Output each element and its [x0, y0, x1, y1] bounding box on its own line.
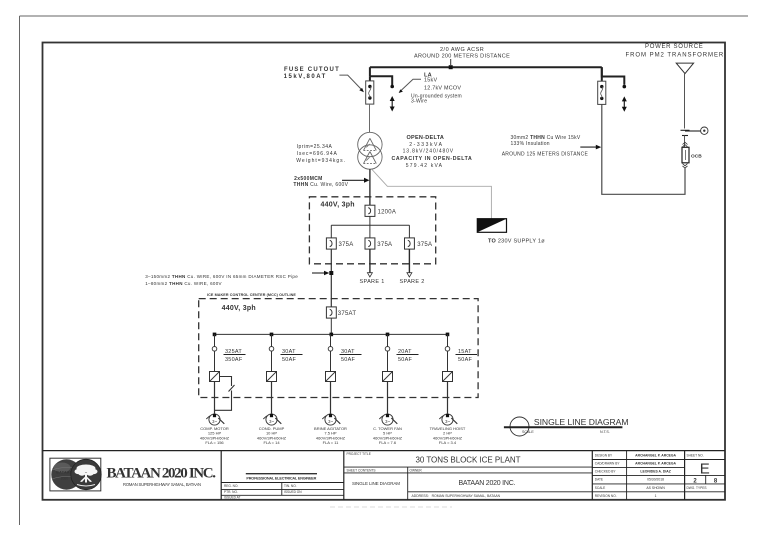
company logo [50, 458, 101, 491]
wire: tap to 230V supply [372, 170, 491, 219]
svg-text:LEONIDES A. DIAZ: LEONIDES A. DIAZ [640, 470, 670, 474]
svg-text:ARCHANGEL P. ARCEGA: ARCHANGEL P. ARCEGA [635, 454, 676, 458]
svg-text:SCALE: SCALE [595, 486, 605, 490]
svg-text:FLA = 11: FLA = 11 [323, 440, 340, 445]
wire: contactor to motor, branch 2 [271, 382, 273, 414]
wire: drop from feeder to fuse cutout F1 [369, 67, 371, 76]
wire: MCC bus [330, 318, 332, 334]
svg-text:30 TONS BLOCK ICE PLANT: 30 TONS BLOCK ICE PLANT [416, 456, 521, 465]
svg-text:SHEET CONTENTS: SHEET CONTENTS [347, 469, 376, 473]
svg-text:SINGLE LINE DIAGRAM: SINGLE LINE DIAGRAM [352, 481, 400, 486]
svg-text:3~: 3~ [385, 419, 390, 424]
wire: PM2 drop [684, 74, 686, 129]
wire: CT to breaker [684, 136, 686, 148]
svg-text:FLA = 156: FLA = 156 [205, 440, 224, 445]
branch 5: breaker 15AT/50AF [445, 334, 477, 371]
wire: contactor to motor, branch 1 [214, 382, 216, 414]
svg-text:3~: 3~ [212, 419, 217, 424]
breaker CB 375A spare 2 [405, 238, 433, 249]
right info rows [595, 454, 621, 499]
svg-text:SINGLE LINE DIAGRAM: SINGLE LINE DIAGRAM [534, 417, 629, 427]
label: transformer primary/secondary currents [296, 144, 345, 164]
svg-text:2020: 2020 [61, 477, 69, 481]
breaker CB 375AT MCC main [326, 307, 356, 318]
label: 2/0 AWG ACSR AROUND 200 METERS DISTANCE [414, 47, 510, 60]
wire: panel bus [369, 216, 371, 225]
wire: fuse F1 to transformer primary [369, 104, 371, 132]
svg-text:SHEET NO.: SHEET NO. [687, 454, 704, 458]
lightning arrester LA2 [622, 85, 627, 112]
wire: transformer secondary to panel main breaker [369, 169, 371, 205]
svg-text:BATAAN 2020 INC.: BATAAN 2020 INC. [107, 466, 217, 482]
svg-text:PROJECT TITLE: PROJECT TITLE [347, 452, 371, 456]
magnetic starter contactor, branch 4 [383, 372, 393, 382]
svg-text:325AT: 325AT [225, 349, 242, 355]
breaker CB 1200A [365, 205, 396, 216]
label: 3-150mm2 THHN feeder cable note [145, 271, 329, 286]
svg-text:30AT: 30AT [341, 349, 355, 355]
node: ACSR tap point [449, 59, 453, 69]
svg-text:AS SHOWN: AS SHOWN [646, 486, 665, 490]
label: OPEN-DELTA transformer ratings [392, 135, 473, 169]
flag: TO 230V SUPPLY 1ph [477, 219, 545, 245]
svg-text:PROFESSIONAL ELECTRICAL ENGINE: PROFESSIONAL ELECTRICAL ENGINEER [246, 477, 316, 481]
drawout chevrons below breaker [683, 164, 688, 169]
svg-text:CHECKED BY: CHECKED BY [595, 470, 617, 474]
wire: spare 2 drop [408, 249, 410, 273]
wire: bypass loop with switch, branch 1 [215, 377, 235, 411]
svg-text:CAD/DRAWN BY: CAD/DRAWN BY [595, 462, 621, 466]
fuse cutout F2 [598, 81, 606, 104]
svg-text:ISSUED ON: ISSUED ON [284, 490, 302, 494]
breaker CB 375A feeder 1 [326, 238, 353, 249]
svg-text:SCALE: SCALE [522, 430, 534, 434]
svg-text:20AT: 20AT [398, 349, 412, 355]
svg-text:30mm2 THHN Cu Wire 15kV: 30mm2 THHN Cu Wire 15kV [511, 135, 581, 141]
wire: contactor to motor, branch 5 [447, 382, 449, 414]
svg-text:50AF: 50AF [341, 357, 356, 363]
svg-text:PTR. NO.: PTR. NO. [224, 490, 238, 494]
drawout chevrons above breaker [683, 142, 688, 147]
CT / metering tap [681, 130, 701, 135]
branch 4: breaker 20AT/50AF [385, 334, 418, 371]
branch 2: breaker 30AT/50AF [269, 334, 302, 371]
svg-text:AROUND 125 METERS DISTANCE: AROUND 125 METERS DISTANCE [502, 151, 589, 157]
svg-text:OWNER: OWNER [410, 469, 423, 473]
wire: breaker down and across to fuse cutout F2 [602, 104, 685, 194]
svg-text:DWG. TYPES: DWG. TYPES [687, 486, 707, 490]
svg-text:ADDRESS: ROMAN SUPERHIGHWAY: ADDRESS: ROMAN SUPERHIGHWAY SAMAL, BATAA… [412, 494, 501, 498]
signature block [246, 473, 317, 475]
panel: 440V 3ph main distribution (dashed outline) [309, 197, 435, 264]
symbol: single line diagram title [504, 417, 629, 436]
breaker OCB [682, 147, 702, 163]
motor M1: COMP. MOTOR [206, 414, 224, 425]
svg-text:DATE: DATE [595, 478, 603, 482]
wire: stub to lightning arrester LA1 [370, 76, 392, 85]
label: motor 2 nameplate [257, 426, 287, 445]
svg-text:50AF: 50AF [458, 357, 473, 363]
inner drawing frame [43, 43, 726, 500]
center section internal lines [344, 466, 593, 468]
svg-text:REG. NO.: REG. NO. [224, 484, 238, 488]
label: motor 5 nameplate [430, 426, 466, 445]
svg-text:2: 2 [693, 478, 697, 484]
label: 2x500MCM THHN Cu. Wire 600V with arrow [293, 176, 369, 188]
node: bus junctions [213, 333, 450, 337]
title block [43, 451, 726, 500]
label: FUSE CUTOUT 15kV,80AT with leader [284, 67, 364, 92]
label: motor 3 nameplate [314, 426, 347, 445]
svg-text:50AF: 50AF [282, 357, 297, 363]
lightning arrester LA1 [390, 85, 395, 112]
transformer T1 open-delta [358, 132, 382, 169]
panel: ICE MAKER CONTROL CENTER MCC (dashed outline) [199, 299, 478, 398]
svg-text:05/30/2018: 05/30/2018 [647, 478, 664, 482]
svg-text:30AT: 30AT [282, 349, 296, 355]
svg-text:3~: 3~ [269, 419, 274, 424]
svg-text:OCB: OCB [691, 154, 702, 160]
label: POWER SOURCE FROM PM2 TRANSFORMER [626, 44, 724, 58]
svg-text:FLA = 3.4: FLA = 3.4 [439, 440, 457, 445]
magnetic starter contactor, branch 1 [210, 372, 220, 382]
svg-text:3~: 3~ [445, 419, 450, 424]
svg-text:FLA = 14: FLA = 14 [263, 440, 280, 445]
motor M5: TRAVELING HOIST [439, 414, 457, 425]
wire: contactor to motor, branch 3 [330, 382, 332, 414]
svg-text:BATAAN: BATAAN [56, 470, 73, 474]
svg-text:FROM PM2 TRANSFORMER: FROM PM2 TRANSFORMER [626, 52, 724, 58]
node: feeder cable tap [329, 271, 333, 275]
motor M3: BRINE AGITATOR [322, 414, 340, 425]
svg-text:ISSUED AT: ISSUED AT [224, 496, 240, 500]
signature area internal lines [221, 482, 344, 484]
svg-text:1: 1 [655, 494, 657, 498]
svg-text:N.T.S.: N.T.S. [600, 430, 610, 434]
magnetic starter contactor, branch 2 [267, 372, 277, 382]
wire: spare 1 drop [369, 249, 371, 273]
magnetic starter contactor, branch 5 [443, 372, 453, 382]
label: motor 1 nameplate [200, 426, 230, 445]
svg-text:DESIGN BY: DESIGN BY [595, 454, 613, 458]
meter kWh [701, 127, 708, 134]
svg-text:BATAAN 2020 INC.: BATAAN 2020 INC. [459, 480, 516, 487]
svg-text:8: 8 [714, 478, 718, 484]
branch 1: breaker 325AT/350AF [212, 334, 245, 371]
svg-text:REVISION NO.: REVISION NO. [595, 494, 617, 498]
svg-text:ARCHANGEL P. ARCEGA: ARCHANGEL P. ARCEGA [635, 462, 676, 466]
motor M4: C. TOWER FAN [379, 414, 397, 425]
wire: contactor to motor, branch 4 [387, 382, 389, 414]
svg-text:350AF: 350AF [225, 357, 243, 363]
magnetic starter contactor, branch 3 [326, 372, 336, 382]
right section rows [592, 459, 725, 461]
svg-text:POWER SOURCE: POWER SOURCE [645, 44, 703, 50]
wire: feeder to MCC [330, 249, 332, 307]
motor M2: COND. PUMP [263, 414, 281, 425]
fuse cutout F1 15kV,80AT [366, 81, 374, 104]
power source symbol (triangle), PM2 feed [676, 63, 693, 74]
svg-text:ROMAN SUPERHIGHWAY SAMAL, BATA: ROMAN SUPERHIGHWAY SAMAL, BATAAN [123, 482, 201, 487]
svg-text:E: E [700, 461, 710, 478]
svg-text:3~: 3~ [328, 419, 333, 424]
svg-text:FLA = 7.6: FLA = 7.6 [379, 440, 397, 445]
label: motor 4 nameplate [373, 426, 403, 445]
branch 3: breaker 30AT/50AF [328, 334, 361, 371]
wire: F2 stub from feeder [602, 67, 625, 85]
svg-text:50AF: 50AF [398, 357, 413, 363]
label: 30mm2 THHN Cu Wire 15kV 133% insulation [502, 135, 602, 157]
svg-text:15AT: 15AT [458, 349, 472, 355]
svg-text:TIN. NO.: TIN. NO. [284, 484, 297, 488]
label: LA 15kV 12.7kV MCOV Un-grounded system 3-Wire [399, 72, 462, 104]
wire: 13.8kV overhead feeder [370, 66, 602, 68]
breaker CB 375A spare 1 [365, 238, 392, 249]
svg-text:133% Insulation: 133% Insulation [511, 141, 550, 147]
